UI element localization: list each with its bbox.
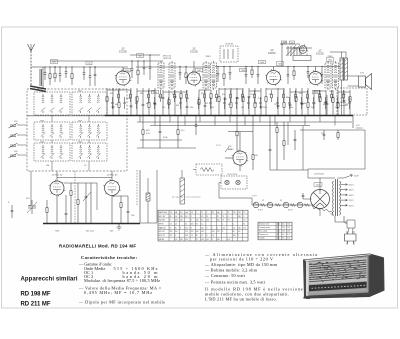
- node upper 13: [185, 66, 186, 67]
- svg-text:220: 220: [185, 227, 188, 229]
- svg-text:0,6: 0,6: [191, 212, 193, 214]
- capacitor C20: [236, 88, 239, 116]
- capacitor upper U16: [229, 67, 232, 81]
- svg-text:0: 0: [212, 227, 213, 229]
- wire link top 6: [249, 90, 261, 92]
- svg-text:6,3: 6,3: [233, 227, 235, 229]
- svg-text:VALVOLA: VALVOLA: [159, 211, 168, 214]
- resistor extra RX12: [186, 90, 188, 102]
- node upper 1: [44, 66, 45, 67]
- node upper 9: [137, 60, 138, 61]
- wire tuner vert c: [51, 140, 53, 143]
- bus connector 12: [304, 116, 306, 126]
- capacitor extra CX21: [247, 97, 249, 109]
- svg-text:6,3: 6,3: [277, 234, 279, 236]
- capacitor input: [94, 67, 97, 86]
- svg-text:220 V: 220 V: [349, 185, 355, 187]
- coil group L4 OM: [72, 122, 107, 140]
- svg-text:85: 85: [196, 235, 198, 237]
- antenna: [28, 44, 35, 51]
- capacitor C13: [186, 90, 189, 116]
- bus junction 9: [259, 115, 260, 116]
- wire v6 link: [112, 195, 128, 197]
- wire tuner bottom b: [88, 161, 90, 171]
- wire v6 top: [111, 171, 113, 181]
- svg-text:OM: OM: [46, 165, 49, 167]
- svg-text:Corrente anod.: Corrente anod.: [259, 226, 271, 229]
- svg-text:7017: 7017: [78, 91, 82, 93]
- svg-text:0: 0: [222, 212, 223, 214]
- wire mid vert 303: [302, 126, 304, 171]
- svg-text:— Dipolo per MF incorporato n: — Dipolo per MF incorporato nel mobile: [78, 300, 165, 305]
- capacitor upper U1: [44, 67, 47, 80]
- wire rect top: [319, 178, 321, 191]
- heater link squiggle 1: [260, 204, 266, 207]
- svg-text:Griglia: Griglia: [340, 102, 347, 104]
- svg-text:0: 0: [217, 227, 218, 229]
- svg-text:409: 409: [323, 104, 326, 106]
- resistor R19: [230, 88, 232, 116]
- sub-box resistor: [200, 168, 214, 172]
- node upper 11: [149, 54, 150, 55]
- node upper 5: [71, 66, 72, 67]
- label 7002 a: [136, 54, 144, 58]
- resistor upper U5: [71, 67, 73, 85]
- capacitor C24: [260, 88, 263, 116]
- bus junction 11: [289, 115, 290, 116]
- ground bus lower: [43, 223, 140, 225]
- technical characteristics text: [78, 252, 317, 305]
- capacitor extra CX29: [300, 97, 302, 109]
- capacitor upper U22: [307, 67, 310, 79]
- IF transformer MF2 primary: [203, 61, 209, 90]
- tube V3 ECH81: [265, 69, 281, 86]
- svg-text:7009: 7009: [260, 62, 264, 64]
- heater of valve 3: [283, 202, 289, 208]
- wire rect bottom: [319, 209, 321, 217]
- node upper 15: [223, 66, 224, 67]
- svg-text:2: 2: [206, 212, 207, 214]
- wire ot to speaker a: [348, 75, 359, 77]
- svg-text:47k: 47k: [222, 94, 225, 96]
- svg-text:433: 433: [110, 231, 113, 233]
- voltage selector: [335, 220, 355, 228]
- mains plug body: [345, 234, 357, 241]
- svg-text:404: 404: [115, 104, 118, 106]
- svg-text:RD 198 MF: RD 198 MF: [21, 292, 51, 298]
- IF transformer MF3 primary: [325, 61, 331, 90]
- dial lamps box: [221, 176, 247, 189]
- node osc a: [281, 43, 283, 45]
- label 7005 b: [326, 58, 334, 62]
- power transformer secondary winding: [340, 181, 341, 215]
- rail AVC: [137, 121, 352, 123]
- svg-text:470k: 470k: [163, 137, 167, 139]
- wire sub-box: [193, 169, 196, 171]
- boxed label 7006: [152, 90, 159, 94]
- trimmer capacitor T4: [9, 153, 18, 158]
- wire V4 plate: [315, 67, 317, 72]
- svg-text:250: 250: [238, 216, 241, 218]
- svg-text:22n: 22n: [162, 107, 165, 109]
- capacitor extra CX37: [348, 97, 350, 109]
- svg-text:125 V: 125 V: [349, 200, 355, 202]
- bus connector 10: [274, 116, 276, 126]
- wire ot to speaker b: [348, 85, 359, 87]
- svg-text:ECL 82: ECL 82: [159, 235, 165, 237]
- node upper 2: [49, 66, 50, 67]
- wire ot top2: [345, 52, 347, 58]
- svg-text:Tensione rete: Tensione rete: [259, 223, 269, 226]
- wire mid horiz 1: [228, 131, 253, 133]
- resistor R1: [106, 88, 108, 116]
- capacitor upper U17: [245, 67, 248, 85]
- svg-text:150k: 150k: [263, 107, 267, 109]
- feedback dashed box: [337, 88, 367, 115]
- capacitor extra CX11: [179, 97, 181, 109]
- node upper 3: [59, 66, 60, 67]
- wire vert 91: [90, 183, 92, 223]
- svg-text:0,3: 0,3: [287, 238, 289, 240]
- bus connector 3: [169, 116, 171, 123]
- capacitor C34: [325, 90, 328, 116]
- dashed shield wire a: [74, 171, 76, 223]
- resistor extra RX16: [216, 90, 218, 102]
- svg-text:747: 747: [87, 63, 90, 65]
- capacitor extra CX5: [135, 97, 137, 109]
- wire V1 plate: [122, 67, 124, 71]
- svg-text:2: 2: [222, 224, 223, 226]
- svg-text:0,6: 0,6: [175, 224, 177, 226]
- svg-text:412: 412: [211, 107, 214, 109]
- svg-text:7012 7013: 7012 7013: [227, 174, 237, 176]
- wire tuner vert b: [88, 115, 90, 122]
- wire bus drop right: [352, 116, 354, 129]
- svg-text:1M: 1M: [236, 98, 239, 100]
- svg-text:controre.: controre.: [340, 104, 348, 107]
- main ground bus: [105, 115, 353, 117]
- tuning unit dashed enclosure: [27, 89, 127, 171]
- svg-text:170: 170: [217, 231, 220, 233]
- oscillator trimmer arrows: [286, 45, 300, 56]
- wire psu left: [303, 198, 312, 200]
- capacitor chain d: [294, 130, 297, 150]
- svg-text:7005: 7005: [328, 60, 332, 62]
- resistor R31: [307, 88, 309, 116]
- svg-text:220: 220: [185, 239, 188, 241]
- svg-text:7016: 7016: [40, 91, 44, 93]
- svg-text:Apparecchi similari: Apparecchi similari: [21, 277, 78, 283]
- capacitor C22: [248, 88, 251, 116]
- svg-text:250: 250: [175, 231, 178, 233]
- resistor extra RX8: [160, 90, 162, 102]
- wire grid rail: [128, 60, 163, 62]
- resistor upper U21: [293, 67, 295, 81]
- B+ arrow: [344, 174, 353, 178]
- heater of valve 2: [267, 202, 273, 208]
- svg-text:220: 220: [191, 231, 194, 233]
- capacitor extra CX35: [336, 97, 338, 109]
- transformer tap 110 V: [341, 204, 348, 206]
- mains cord: [348, 228, 354, 234]
- resistor mid2: [236, 116, 238, 151]
- tube V1 1/2 ECC85: [115, 70, 131, 87]
- resistor v7 grid: [46, 200, 48, 223]
- svg-text:0,6: 0,6: [185, 216, 187, 218]
- svg-text:6,3: 6,3: [282, 234, 284, 236]
- resistor extra RX6: [148, 90, 150, 102]
- wire V3 plate: [273, 67, 275, 71]
- wire chain start: [251, 198, 253, 205]
- svg-text:47k: 47k: [255, 155, 258, 157]
- wire plate rail: [130, 54, 160, 56]
- resistor R27: [283, 88, 285, 116]
- boxed label 7009: [259, 60, 266, 64]
- capacitor extra CX13: [197, 97, 199, 109]
- svg-text:2F42 G2: 2F42 G2: [163, 58, 172, 60]
- bus junction 4: [184, 115, 185, 116]
- label 747: [86, 61, 92, 65]
- svg-text:7002: 7002: [138, 56, 142, 58]
- wire V5 top: [239, 132, 241, 152]
- svg-text:1/2 ECL82: 1/2 ECL82: [314, 174, 325, 176]
- svg-text:2: 2: [191, 216, 192, 218]
- resistor chain c: [283, 122, 285, 160]
- node upper 17: [245, 66, 246, 67]
- capacitor C2: [112, 88, 115, 116]
- wire osc top: [280, 43, 300, 45]
- resistor upper U15: [223, 67, 225, 87]
- svg-text:0,6: 0,6: [238, 231, 240, 233]
- svg-text:7,9 V: 7,9 V: [252, 196, 257, 198]
- svg-text:9,5: 9,5: [201, 216, 203, 218]
- node upper 6: [83, 66, 84, 67]
- dial lamp 7012: [225, 180, 229, 184]
- svg-text:12: 12: [185, 224, 187, 226]
- svg-text:1k: 1k: [130, 107, 132, 109]
- svg-text:ECH81: ECH81: [268, 53, 276, 55]
- wire choke2 top: [181, 170, 183, 178]
- capacitor extra CX25: [276, 97, 278, 109]
- capacitor coupling: [85, 183, 88, 223]
- wire choke bottom: [147, 201, 149, 223]
- bus junction 5: [199, 115, 200, 116]
- resistor extra RX2: [118, 90, 120, 102]
- node upper 8: [131, 60, 132, 61]
- svg-text:0,6: 0,6: [206, 239, 208, 241]
- svg-text:0,6: 0,6: [175, 239, 177, 241]
- svg-text:85: 85: [175, 227, 177, 229]
- wire mains b: [343, 216, 345, 222]
- svg-text:2F41 G1: 2F41 G1: [163, 56, 172, 58]
- svg-text:12: 12: [170, 227, 172, 229]
- bus connector 2: [154, 116, 156, 126]
- wire V2 plate: [193, 61, 195, 72]
- capacitor C36: [343, 90, 346, 116]
- svg-text:220: 220: [180, 239, 183, 241]
- node upper 23: [321, 66, 322, 67]
- wire ot top: [341, 52, 343, 58]
- svg-text:125: 125: [277, 224, 280, 226]
- svg-text:7020: 7020: [40, 142, 44, 144]
- svg-text:7019: 7019: [78, 121, 82, 123]
- resistor upper U9: [137, 61, 139, 84]
- svg-text:100: 100: [201, 239, 204, 241]
- wire vert 97: [96, 183, 98, 210]
- label 7015: [314, 183, 322, 187]
- bus junction 14: [334, 115, 335, 116]
- label 7001: [50, 60, 58, 64]
- resistor extra RX10: [174, 90, 176, 102]
- svg-text:8: 8: [191, 220, 192, 222]
- node upper 10: [143, 60, 144, 61]
- svg-text:7014: 7014: [55, 231, 59, 233]
- wire out bottom: [308, 168, 365, 170]
- resistor R37: [349, 90, 351, 116]
- svg-text:10n: 10n: [306, 98, 309, 100]
- resistor R10: [168, 90, 170, 116]
- node upper 18: [251, 66, 252, 67]
- node upper 21: [293, 66, 294, 67]
- capacitor upper U19: [257, 67, 260, 85]
- antenna lead wire: [30, 51, 32, 86]
- resistor upper U2: [49, 67, 51, 85]
- resistor out net: [337, 130, 339, 140]
- capacitor extra CX9: [167, 97, 169, 109]
- svg-text:220: 220: [277, 238, 280, 240]
- tuning unit divider: [27, 115, 105, 117]
- svg-text:7018: 7018: [40, 121, 44, 123]
- svg-text:170: 170: [170, 212, 173, 214]
- choke hatched bar 1: [146, 193, 150, 201]
- svg-text:1/2 ECL 82: 1/2 ECL 82: [52, 175, 64, 177]
- svg-text:7,9 V: 7,9 V: [216, 145, 221, 147]
- svg-text:85: 85: [243, 224, 245, 226]
- wire osc drop a: [281, 44, 283, 67]
- svg-text:220: 220: [170, 231, 173, 233]
- resistor 485: [142, 116, 144, 148]
- svg-text:Fusibile: Fusibile: [259, 238, 265, 240]
- wire mid h4: [270, 169, 308, 171]
- capacitor upper U3: [59, 67, 62, 82]
- resistor fb: [332, 90, 334, 116]
- svg-text:406: 406: [303, 103, 306, 105]
- output transformer core line: [343, 57, 345, 81]
- svg-text:250: 250: [206, 220, 209, 222]
- capacitor C9: [162, 90, 165, 116]
- svg-text:Tens. altop.: Tens. altop.: [259, 230, 268, 233]
- mains plug pins: [347, 241, 354, 245]
- svg-text:410: 410: [282, 43, 285, 45]
- node upper 12: [179, 66, 180, 67]
- heater of valve 1: [253, 202, 259, 208]
- wire rect top h: [308, 177, 335, 179]
- wire link top 1: [107, 89, 131, 91]
- svg-text:8: 8: [222, 231, 223, 233]
- wire choke top: [147, 178, 149, 193]
- bus junction 2: [154, 115, 155, 116]
- wire tube link: [57, 177, 112, 179]
- capacitor 486: [159, 116, 162, 148]
- valve voltage table text: [159, 211, 246, 241]
- oscillator padder caps: [288, 46, 300, 56]
- capacitor far left: [11, 205, 14, 218]
- capacitor C32: [313, 90, 316, 116]
- node upper 20: [287, 66, 288, 67]
- trimmer capacitor T1: [9, 123, 18, 128]
- wire link top 7: [266, 88, 284, 90]
- svg-text:Caratteristiche tecniche:: Caratteristiche tecniche:: [81, 255, 137, 260]
- coil group L2 FM: [72, 92, 107, 115]
- resistor R3: [118, 88, 120, 116]
- svg-text:8,2k: 8,2k: [342, 94, 346, 96]
- capacitor 101 out: [323, 130, 326, 140]
- resistor extra RX18: [230, 90, 232, 102]
- svg-text:85: 85: [233, 231, 235, 233]
- bus junction 8: [244, 115, 245, 116]
- svg-text:100: 100: [212, 231, 215, 233]
- svg-text:0: 0: [233, 224, 234, 226]
- wire tuner vert a: [51, 115, 53, 122]
- bus connector 8: [244, 116, 246, 126]
- resistor upper U18: [251, 67, 253, 79]
- svg-text:25: 25: [280, 200, 282, 202]
- capacitor extra CX31: [312, 97, 314, 109]
- bus junction 7: [229, 115, 230, 116]
- wire link top 5: [219, 88, 243, 90]
- svg-text:757: 757: [274, 104, 277, 106]
- svg-text:6,3: 6,3: [180, 212, 182, 214]
- svg-text:170: 170: [243, 227, 246, 229]
- wire fm box left: [42, 67, 44, 89]
- capacitor extra CX7: [153, 97, 155, 109]
- resistor extra RX36: [343, 90, 345, 102]
- resistor R35: [337, 90, 339, 116]
- svg-text:7010: 7010: [314, 92, 318, 94]
- wire lamps drop: [218, 183, 220, 199]
- svg-text:220k: 220k: [329, 91, 333, 93]
- svg-text:12: 12: [196, 239, 198, 241]
- coil group L5 OC: [34, 143, 70, 161]
- resistor 47k anode: [252, 116, 254, 170]
- resistor extra RX28: [295, 90, 297, 102]
- power transformer core: [336, 179, 338, 216]
- svg-text:12: 12: [201, 212, 203, 214]
- resistor extra RX4: [130, 90, 132, 102]
- resistor extra RX24: [271, 90, 273, 102]
- potentiometer arrow: [225, 147, 229, 152]
- speaker 159: [359, 74, 372, 90]
- svg-text:125: 125: [277, 231, 280, 233]
- bus connector 6: [214, 116, 216, 126]
- svg-text:0,6: 0,6: [175, 216, 177, 218]
- svg-text:100: 100: [191, 224, 194, 226]
- capacitor extra CX33: [324, 97, 326, 109]
- right vert 157: [156, 170, 158, 223]
- resistor extra RX26: [283, 90, 285, 102]
- resistor 405: [177, 116, 179, 148]
- boxed label 410: [281, 41, 287, 45]
- svg-text:0,6: 0,6: [212, 235, 214, 237]
- node osc b: [294, 47, 296, 49]
- resistor v6 cathode: [120, 196, 122, 223]
- svg-text:7006: 7006: [153, 92, 157, 94]
- boxed label 7007: [196, 68, 203, 72]
- resistor R33: [319, 90, 321, 116]
- choke hatched bar 2: [180, 178, 185, 204]
- resistor R16: [210, 90, 212, 116]
- power transformer primary winding: [333, 181, 334, 215]
